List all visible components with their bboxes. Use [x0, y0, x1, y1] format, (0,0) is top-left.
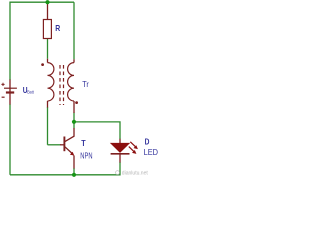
- svg-text:LED: LED: [144, 148, 159, 157]
- svg-text:Tr: Tr: [82, 80, 89, 89]
- wire: primary winding bottom to collector node: [73, 113, 75, 122]
- transformer Tr primary winding (right coil): [68, 63, 74, 101]
- junction: node emitter / bottom rail: [72, 173, 76, 177]
- wire: resistor bottom to secondary winding top: [47, 39, 49, 59]
- transistor T collector lead: [65, 128, 74, 142]
- wire: right vertical drop to transformer primary top: [73, 2, 75, 59]
- svg-text:R: R: [55, 23, 60, 33]
- wire: secondary winding bottom down to base corner: [47, 107, 49, 145]
- svg-text:NPN: NPN: [80, 151, 92, 160]
- transistor T base bar: [63, 137, 65, 152]
- wire: emitter lead down to ground rail: [73, 168, 75, 175]
- battery + polarity mark: [1, 83, 4, 86]
- watermark icon: [116, 171, 120, 175]
- LED D light arrow 1 shaft: [130, 142, 135, 147]
- transformer Tr primary bottom lead: [73, 101, 75, 113]
- transformer Tr secondary bottom lead: [47, 101, 49, 108]
- svg-text:D: D: [145, 137, 150, 146]
- LED D cathode lead: [119, 155, 121, 163]
- transformer Tr primary top lead: [73, 59, 75, 62]
- battery - polarity mark: [2, 96, 5, 98]
- resistor R top lead: [47, 2, 49, 19]
- wire: collector node down to transistor collector lead: [73, 122, 75, 129]
- battery U_Batt positive lead: [9, 80, 11, 89]
- wire: battery - down to bottom rail: [9, 104, 11, 175]
- svg-text:dianlutu.net: dianlutu.net: [122, 171, 149, 177]
- transformer Tr core line 2: [63, 65, 65, 105]
- LED D light arrow 2 shaft: [129, 147, 134, 152]
- transformer Tr secondary top lead: [47, 59, 49, 63]
- wire: top rail from battery + to right drop: [10, 2, 74, 80]
- transistor T base lead: [60, 144, 64, 146]
- transistor T emitter arrowhead: [70, 152, 74, 156]
- resistor R body: [43, 20, 51, 39]
- wire: bottom rail to LED cathode corner: [10, 162, 120, 175]
- wire: collector node to LED anode corner: [74, 122, 120, 139]
- transistor T emitter lead: [65, 147, 72, 154]
- junction: node collector / primary / LED: [72, 120, 76, 124]
- wire: base horizontal wire: [48, 144, 61, 146]
- junction: node at top rail / resistor: [45, 0, 49, 4]
- transformer Tr secondary winding (left coil): [48, 63, 54, 101]
- battery U_Batt short plate (-): [6, 91, 14, 93]
- transistor T emitter lead to ground: [73, 156, 75, 169]
- LED D light arrow 2 head: [132, 150, 136, 154]
- LED D light arrow 1 head: [134, 145, 138, 149]
- LED D cathode bar: [111, 153, 130, 155]
- battery U_Batt negative lead: [9, 88, 11, 105]
- transformer Tr secondary polarity dot: [41, 63, 44, 66]
- svg-text:T: T: [81, 139, 85, 148]
- transformer Tr core line 1: [59, 65, 61, 105]
- transformer Tr primary polarity dot: [75, 101, 78, 104]
- battery U_Batt long plate (+): [4, 87, 17, 89]
- svg-text:Batt: Batt: [27, 90, 34, 95]
- LED D triangle: [111, 143, 130, 152]
- LED D anode lead: [119, 139, 121, 144]
